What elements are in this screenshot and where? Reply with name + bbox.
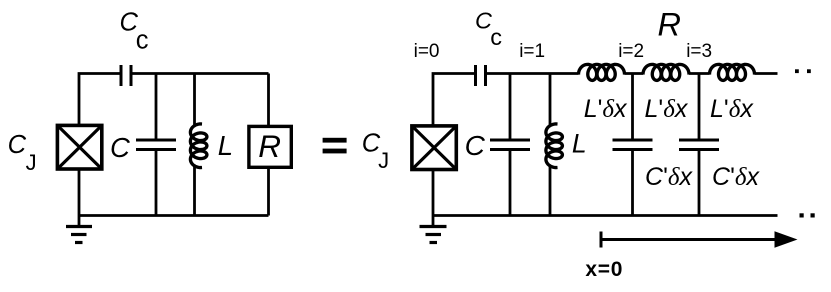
wire L branch bottom (right): [549, 167, 552, 216]
svg-text:L: L: [218, 130, 233, 161]
wire C branch bottom (right): [509, 151, 512, 216]
capacitor C_c (left circuit): [121, 65, 131, 86]
svg-text:L'δx: L'δx: [584, 95, 628, 123]
svg-text:C: C: [465, 130, 486, 161]
wire top-right end: [755, 72, 778, 75]
wire L branch top: [193, 74, 196, 125]
capacitor C (left circuit): [136, 140, 176, 150]
inductor L'dx #1: [579, 64, 625, 80]
svg-text:R: R: [258, 128, 281, 164]
wire capacitor branch 1 bottom: [631, 151, 634, 216]
wire L branch top (right): [549, 74, 552, 125]
wire node i=2: [625, 72, 644, 75]
wire capacitor branch 2 top: [698, 74, 701, 140]
svg-text:i=3: i=3: [686, 41, 712, 62]
dots top right: [795, 69, 811, 73]
wire junction bottom: [78, 169, 81, 216]
svg-text:L'δx: L'δx: [645, 95, 689, 123]
wire Cc to first coil: [487, 72, 579, 75]
x axis arrow: [601, 231, 798, 248]
wire R branch bottom: [267, 168, 270, 216]
svg-text:i=2: i=2: [618, 41, 644, 62]
wire C branch top: [155, 74, 158, 140]
wire junction bottom (right): [432, 170, 435, 216]
svg-text:C: C: [8, 131, 27, 159]
bottom wire (left circuit): [79, 214, 269, 217]
svg-text:C: C: [110, 132, 130, 163]
wire R branch top: [267, 74, 270, 127]
inductor L'dx #3: [710, 64, 755, 80]
svg-text:i=0: i=0: [414, 41, 440, 62]
ground (right circuit): [420, 216, 447, 243]
dots bottom right: [800, 213, 815, 217]
wire node i=3: [689, 72, 710, 75]
svg-text:C'δx: C'δx: [645, 163, 693, 191]
svg-text:R: R: [658, 7, 681, 43]
svg-text:C'δx: C'δx: [712, 163, 760, 191]
capacitor C'dx #2: [679, 140, 719, 150]
svg-text:J: J: [378, 148, 389, 173]
svg-text:L'δx: L'δx: [710, 95, 754, 123]
wire C branch top (right): [509, 74, 512, 140]
svg-text:x=0: x=0: [585, 258, 623, 281]
equals sign: [323, 138, 347, 154]
wire L branch bottom: [193, 167, 196, 216]
ground (left circuit): [66, 216, 92, 243]
bottom wire (right circuit): [433, 214, 778, 217]
capacitor C'dx #1: [613, 140, 653, 150]
svg-text:c: c: [490, 24, 502, 50]
wire capacitor branch 1 top: [631, 74, 634, 140]
wire top-left from junction up to Cc: [79, 74, 120, 126]
resistor R box (left): [249, 126, 291, 167]
capacitor C (right circuit): [490, 140, 530, 150]
svg-text:L: L: [572, 129, 587, 159]
wire top-left (right circuit) junction to Cc: [433, 74, 474, 126]
svg-text:J: J: [26, 150, 37, 175]
wire capacitor branch 2 bottom: [698, 151, 701, 216]
inductor L (right circuit): [546, 124, 563, 168]
inductor L (left circuit): [190, 124, 207, 168]
josephson junction C_J box (left): [57, 125, 101, 169]
wire C branch bottom: [155, 151, 158, 216]
capacitor C_c (right circuit): [476, 65, 486, 86]
inductor L'dx #2: [643, 64, 689, 80]
svg-text:i=1: i=1: [519, 41, 545, 62]
svg-text:c: c: [136, 27, 149, 55]
josephson junction C_J box (right): [412, 126, 456, 170]
wire Cc to top-right corner: [132, 72, 268, 75]
